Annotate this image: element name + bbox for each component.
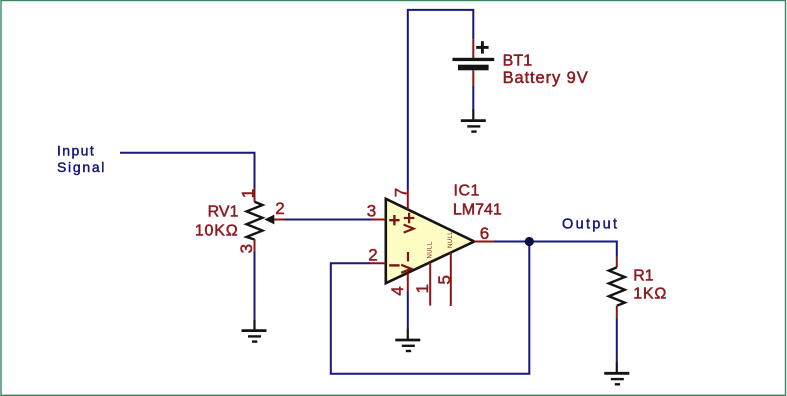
svg-text:3: 3 <box>367 201 376 220</box>
wire battery to ground <box>472 86 474 110</box>
svg-text:NULL: NULL <box>427 241 433 258</box>
svg-text:Signal: Signal <box>57 159 106 175</box>
svg-text:1KΩ: 1KΩ <box>633 286 667 303</box>
wire pin4 to ground <box>407 291 409 329</box>
svg-text:1: 1 <box>239 189 258 198</box>
node Input label <box>57 143 106 176</box>
wire output <box>494 242 616 257</box>
pin - stub <box>472 70 474 85</box>
pin 2 stub <box>370 262 386 264</box>
svg-text:2: 2 <box>275 199 284 218</box>
wiper arrow pin 2 <box>264 215 274 225</box>
ground under op-amp pin 4 <box>395 329 420 351</box>
pin 5 stub <box>450 252 452 306</box>
svg-text:3: 3 <box>237 244 256 253</box>
ground under RV1 <box>242 320 267 342</box>
svg-text:IC1: IC1 <box>454 183 480 200</box>
pin 2 stub <box>616 306 618 318</box>
pin name V+ <box>404 213 415 233</box>
pin + stub <box>472 40 474 58</box>
svg-text:LM741: LM741 <box>453 202 502 219</box>
junction output node <box>525 237 534 246</box>
svg-text:RV1: RV1 <box>208 204 239 221</box>
svg-text:Output: Output <box>562 217 619 233</box>
wire RV1 pin3 to ground <box>254 252 256 320</box>
svg-text:Battery 9V: Battery 9V <box>503 69 589 87</box>
positive plate <box>453 58 495 61</box>
plus input marker <box>389 215 399 225</box>
negative plate <box>458 65 489 71</box>
pin 1 stub <box>616 257 618 268</box>
svg-text:4: 4 <box>388 286 407 295</box>
pin 1 stub <box>254 188 256 202</box>
wire pin7 to battery top <box>408 10 474 190</box>
pin 7 stub <box>407 190 409 210</box>
svg-text:R1: R1 <box>633 268 654 285</box>
svg-text:6: 6 <box>480 224 489 243</box>
svg-text:BT1: BT1 <box>503 52 533 69</box>
pin 6 stub <box>474 241 494 243</box>
resistor zigzag <box>247 202 263 240</box>
svg-text:1: 1 <box>413 284 432 293</box>
pin 3 stub <box>372 219 386 221</box>
svg-text:NULL: NULL <box>448 231 454 248</box>
minus input marker <box>389 264 399 266</box>
pin 4 stub <box>407 273 409 291</box>
pin 1 stub <box>429 262 431 305</box>
resistor R1 <box>609 257 667 318</box>
ground under R1 <box>604 362 629 384</box>
ground under battery <box>461 109 486 131</box>
wire wiper to opamp pin 3 <box>285 219 372 221</box>
triangle body <box>386 199 474 283</box>
potentiometer RV1 <box>195 188 286 254</box>
battery BT1 <box>453 40 589 87</box>
wire feedback pin2 to output node <box>331 242 530 374</box>
svg-text:Input: Input <box>57 143 95 159</box>
op-amp IC1 LM741 <box>367 183 502 306</box>
svg-text:10KΩ: 10KΩ <box>195 223 239 240</box>
plus sign <box>476 41 488 53</box>
pin name V- <box>401 252 411 273</box>
svg-text:2: 2 <box>368 246 377 265</box>
zigzag <box>609 267 625 305</box>
pin 3 stub <box>254 239 256 252</box>
wire input to RV1 pin 1 <box>120 153 255 188</box>
wire R1 to ground <box>616 318 618 363</box>
svg-text:5: 5 <box>435 275 454 284</box>
